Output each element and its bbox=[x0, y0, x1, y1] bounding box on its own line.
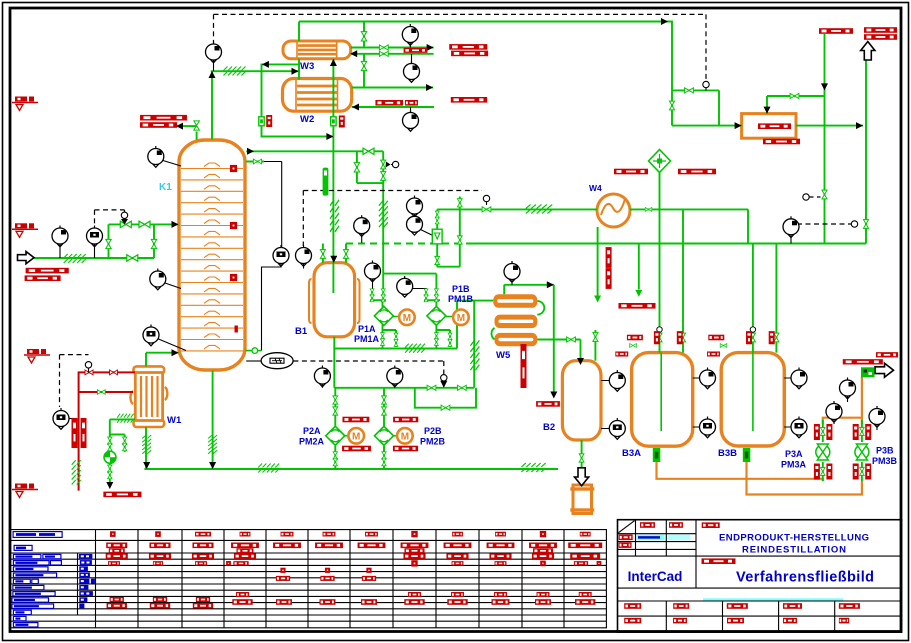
wire P1A suction bbox=[370, 274, 386, 308]
arrow W1 drop bbox=[143, 462, 150, 469]
valve P3A lower bbox=[820, 468, 825, 476]
svg-text:B3B: B3B bbox=[718, 448, 737, 459]
valve nozzle stub bbox=[253, 159, 261, 164]
wire W4 bottom drop bbox=[597, 227, 599, 301]
arrow into box bbox=[735, 122, 742, 129]
link flow indicator bbox=[415, 214, 433, 235]
signal top long bbox=[214, 14, 707, 80]
wire B3B dip tube bbox=[752, 353, 754, 431]
svg-text:Verfahrensfließbild: Verfahrensfließbild bbox=[736, 570, 874, 586]
K1 tray tag squares bbox=[230, 165, 238, 333]
instrument B2 A bbox=[609, 370, 625, 391]
signal flow to P2 valve bbox=[293, 361, 443, 374]
valve P2 main B bbox=[457, 385, 466, 390]
wire P1A drain stub bbox=[383, 330, 397, 347]
table row lines bbox=[10, 540, 607, 621]
valve W3 bypass top bbox=[361, 32, 366, 41]
tag W2 line B bbox=[405, 100, 418, 106]
hatch K1 bottom bbox=[208, 435, 217, 454]
vessel B3A bbox=[632, 353, 693, 447]
valve drop A bbox=[822, 190, 827, 199]
wire reflux into K1 bbox=[176, 126, 197, 140]
signal feed controller bbox=[95, 210, 125, 227]
hatch feed bbox=[64, 254, 86, 263]
flow indicator V-box bbox=[432, 229, 442, 244]
instrument oval flow bbox=[261, 353, 293, 369]
hatch bottoms A bbox=[258, 464, 279, 473]
tag steam B bbox=[81, 418, 87, 448]
link P2 instrument stems bbox=[322, 384, 394, 388]
svg-text:K1: K1 bbox=[159, 182, 172, 193]
valve feed riser A bbox=[106, 239, 111, 248]
valve W1 drain col1 low bbox=[108, 465, 112, 472]
table outer box bbox=[10, 530, 607, 628]
svg-text:B3A: B3A bbox=[622, 448, 641, 459]
wire top right drop A bbox=[824, 34, 826, 244]
vent flag 1 bbox=[12, 97, 38, 111]
valve bus lower loop bbox=[435, 256, 440, 264]
instrument flow A bbox=[407, 196, 423, 217]
wire box outlet bbox=[796, 125, 863, 127]
instrument B3A A bbox=[700, 368, 716, 389]
hatch W5 drop bbox=[470, 340, 479, 370]
row0 bbox=[110, 531, 116, 537]
valve flow drop pair bbox=[435, 211, 439, 218]
tag P3A upper A bbox=[814, 424, 820, 440]
signal right valve B bbox=[797, 223, 852, 225]
sub column line bbox=[78, 553, 96, 615]
link K1 top instrument bbox=[163, 161, 181, 167]
wire W5 drain drop bbox=[473, 301, 475, 388]
svg-text:REINDESTILLATION: REINDESTILLATION bbox=[742, 545, 846, 556]
tag box label bbox=[758, 123, 791, 129]
orange transfer pipes B3A/B3B to pumps P3 bbox=[657, 377, 862, 495]
vessel B3B bbox=[721, 353, 784, 446]
actuator circle manifold bbox=[703, 81, 709, 87]
valve P1B suction pair bbox=[424, 289, 428, 296]
tag B3A valve A bbox=[654, 331, 660, 344]
valve P1B discharge bbox=[434, 333, 438, 340]
valve vent stub pair bbox=[457, 199, 462, 207]
pump P2B bbox=[375, 426, 398, 445]
link B3A instrument stems bbox=[693, 378, 700, 427]
valve B1 stub A bbox=[320, 250, 325, 259]
tag fitting B bbox=[339, 116, 345, 128]
link feed instrument stems bbox=[60, 244, 95, 258]
svg-text:ENDPRODUKT-HERSTELLUNG: ENDPRODUKT-HERSTELLUNG bbox=[719, 533, 869, 544]
valve feed block A bbox=[120, 221, 131, 227]
instrument W1 side bbox=[53, 408, 69, 429]
row2 bbox=[106, 553, 128, 559]
motor PM1B bbox=[453, 310, 469, 326]
tag mixer right bbox=[678, 169, 716, 175]
wire flow indicator drop bbox=[436, 209, 438, 229]
svg-text:B1: B1 bbox=[295, 326, 308, 337]
instrument W1 top bbox=[143, 325, 159, 346]
vent flag 4 bbox=[12, 484, 38, 498]
tag B3A drain bbox=[615, 351, 628, 356]
tag steam A bbox=[72, 418, 78, 448]
top right receiver box bbox=[742, 114, 796, 139]
svg-text:W2: W2 bbox=[300, 114, 314, 125]
hatch bottoms B bbox=[521, 463, 545, 472]
signal right valve A bbox=[809, 196, 821, 198]
svg-text:P3B: P3B bbox=[876, 446, 894, 456]
tag P3A upper B bbox=[826, 424, 832, 440]
valve B3A drain bbox=[630, 344, 637, 348]
instrument P1B bbox=[397, 276, 413, 297]
vessel B1 bbox=[309, 263, 360, 337]
wire P2 discharges bbox=[335, 446, 384, 469]
hatch W5 header bbox=[405, 344, 425, 353]
instrument B1 A bbox=[273, 245, 289, 266]
tag top right A bbox=[819, 28, 853, 34]
arrow W1 drain end bbox=[106, 482, 113, 489]
wire W3 left riser bbox=[298, 22, 300, 80]
svg-text:P2A: P2A bbox=[303, 426, 321, 436]
link mid instrument stem bbox=[361, 234, 363, 243]
wire feed manifold bbox=[34, 224, 179, 258]
link W1 instrument bbox=[159, 339, 187, 351]
tag W2 line A bbox=[375, 100, 403, 106]
instrument B2 B bbox=[609, 418, 625, 439]
pump P2A bbox=[326, 426, 349, 445]
tag W3 right B bbox=[451, 51, 488, 57]
instrument mid bbox=[354, 215, 370, 236]
svg-text:PM1A: PM1A bbox=[354, 334, 380, 344]
tag bus drop bbox=[618, 303, 655, 309]
hatch W4 line bbox=[526, 205, 552, 214]
valve feed bypass bbox=[127, 255, 138, 261]
wire bottoms header bbox=[144, 468, 558, 470]
wire B3B second inlet bbox=[775, 244, 777, 353]
svg-text:PM3A: PM3A bbox=[781, 460, 807, 470]
tag P3B upper A bbox=[853, 424, 859, 440]
wire W3 bypass risers bbox=[363, 22, 365, 88]
valve B3A inlet B bbox=[680, 333, 685, 342]
valve sidedraw bbox=[363, 148, 374, 154]
tag B3B feed bbox=[708, 335, 724, 341]
arrow box top bbox=[764, 107, 771, 114]
instrument P1A bbox=[365, 261, 381, 282]
arrow top header bbox=[661, 18, 668, 25]
wire reflux to condensate drop bbox=[262, 64, 334, 136]
wire W1 bottom outlet bbox=[145, 427, 147, 469]
valve manifold A bbox=[685, 88, 694, 93]
tag P2B bottom bbox=[393, 446, 418, 452]
instrument W3 A bbox=[402, 24, 418, 45]
valve P2B discharge bbox=[382, 452, 386, 459]
instrument P2A bbox=[314, 366, 330, 387]
tag reflux B bbox=[140, 122, 177, 128]
svg-text:P2B: P2B bbox=[424, 426, 442, 436]
valve steam condensate bbox=[97, 390, 105, 394]
table column lines bbox=[96, 530, 565, 628]
wire instrument bus dashed part bbox=[346, 243, 467, 245]
wire bus lower loop bbox=[437, 244, 460, 267]
valve B2 stub bbox=[593, 333, 598, 342]
tag feed A bbox=[26, 268, 69, 274]
hatch W1 drain bbox=[117, 414, 133, 423]
wire W4 feed line bbox=[437, 208, 597, 210]
pump P3B bbox=[855, 444, 869, 460]
tag reflux A bbox=[140, 115, 187, 121]
link top instrument stems bbox=[410, 43, 411, 112]
valve reflux bbox=[194, 121, 199, 130]
instrument B3A B bbox=[700, 417, 716, 438]
instrument feed B bbox=[87, 226, 103, 247]
link bus instrument stem bbox=[790, 235, 792, 243]
actuator circle B3B bbox=[750, 327, 755, 332]
arrow W3 line end bbox=[427, 44, 434, 51]
valve B3B inlet A bbox=[750, 333, 755, 342]
tag product B bbox=[876, 352, 898, 357]
vent flag 3 bbox=[24, 349, 50, 363]
svg-text:P3A: P3A bbox=[785, 449, 803, 459]
arrow into W3 bbox=[350, 50, 357, 57]
arrow reflux K1 bbox=[176, 123, 183, 130]
instrument K1 top bbox=[148, 146, 164, 167]
actuator circle W4 bbox=[483, 195, 489, 201]
valve B2 bottom bbox=[579, 454, 584, 462]
tag P2A bottom bbox=[342, 446, 371, 452]
wire B3A second inlet bbox=[682, 209, 684, 352]
valve B3B inlet B bbox=[774, 333, 779, 342]
link B2 instrument stems bbox=[601, 381, 609, 429]
product outlet block bbox=[861, 367, 875, 377]
svg-text:P1A: P1A bbox=[358, 324, 376, 334]
tag top right C bbox=[864, 34, 897, 40]
actuator circle sidedraw bbox=[392, 161, 398, 167]
svg-text:W3: W3 bbox=[300, 61, 314, 72]
svg-text:W4: W4 bbox=[589, 183, 602, 193]
arrow reflux left bbox=[262, 61, 269, 68]
hatch steam drop bbox=[72, 460, 81, 484]
arrow into B1 bbox=[330, 256, 337, 263]
tag W5 drain bbox=[536, 401, 560, 407]
wire K1 nozzle stub bbox=[246, 161, 264, 163]
wire bus drop connector bbox=[638, 244, 640, 290]
diagonal cell bbox=[619, 521, 635, 533]
link W5 instrument stem bbox=[511, 280, 513, 285]
tag fitting A bbox=[266, 115, 272, 127]
valve P2 bypass bbox=[441, 405, 450, 410]
row1 bbox=[106, 543, 127, 549]
valve P3A upper bbox=[820, 428, 825, 436]
heat exchanger W3 bbox=[283, 41, 351, 59]
link P1B instrument stem bbox=[413, 289, 427, 291]
wire P1 suction header bbox=[383, 273, 436, 275]
valve W3 bypass bottom bbox=[361, 61, 366, 70]
wire P2 bypass loop bbox=[415, 388, 476, 408]
link P1A instrument stem bbox=[372, 279, 374, 289]
valve loop right A bbox=[381, 160, 386, 169]
arrow feed into K1 bbox=[172, 221, 179, 228]
arrow W5 top bbox=[547, 281, 554, 288]
wire B3A dip tube bbox=[660, 353, 662, 431]
tag feed B bbox=[25, 275, 61, 281]
wire W5 outlet to B2 bbox=[537, 340, 580, 361]
motor PM2B bbox=[397, 428, 413, 444]
rows4-5 c6,c7,c8 bbox=[280, 568, 285, 573]
wire instrument bus solid part bbox=[467, 243, 866, 245]
mixer diamond bbox=[649, 150, 671, 173]
actuator circle right B bbox=[851, 221, 857, 227]
wire B2 bottom outlet bbox=[581, 440, 583, 468]
wire W1 side drain bbox=[110, 419, 135, 484]
svg-text:W1: W1 bbox=[167, 415, 182, 426]
sight glass bar bbox=[323, 168, 329, 196]
hatch condensate drop bbox=[330, 200, 339, 232]
arrow W1 to K1 bbox=[172, 349, 179, 356]
tag P2B top bbox=[393, 417, 418, 423]
tag B3B valve A bbox=[746, 331, 752, 344]
wire condensate main to B1 bbox=[332, 59, 334, 293]
heat exchanger W2 bbox=[283, 79, 352, 112]
pump P1A bbox=[374, 306, 399, 325]
link K1 mid instrument bbox=[165, 283, 181, 289]
instrument feed A bbox=[52, 226, 68, 247]
arrow into W2 bbox=[352, 104, 359, 111]
vessel B2 bbox=[562, 361, 601, 440]
wire W4 right line bbox=[630, 209, 748, 243]
valve P3B lower bbox=[860, 468, 865, 476]
tag W2 right bbox=[451, 97, 487, 103]
valve W4 line bbox=[645, 207, 652, 211]
valve drop B bbox=[863, 220, 868, 229]
valve steam A bbox=[85, 370, 93, 375]
heat exchanger W5 coil bbox=[491, 294, 544, 346]
tag W3 right A bbox=[449, 44, 487, 50]
column K1 bbox=[179, 140, 245, 370]
instrument bus bbox=[783, 216, 799, 237]
valve B3B drain bbox=[720, 344, 727, 348]
wire B2 top stub bbox=[594, 330, 596, 361]
valve W3 outlet A bbox=[379, 45, 388, 50]
arrow condensate right bbox=[326, 133, 333, 140]
heat exchanger W4 bbox=[597, 194, 630, 227]
valve box top bbox=[790, 93, 799, 98]
pump P1B bbox=[427, 306, 452, 325]
pump P3A bbox=[816, 444, 830, 460]
valve manifold riser bbox=[669, 101, 674, 110]
link B1 instrument stems bbox=[262, 264, 304, 351]
tag P3B lower B bbox=[865, 464, 871, 480]
tag P3B lower A bbox=[853, 464, 859, 480]
actuator circle feed bbox=[121, 212, 127, 218]
instrument W5 bbox=[504, 261, 520, 282]
wire B3B first inlet bbox=[752, 244, 754, 353]
arrow box out bbox=[856, 122, 863, 129]
wire top right valve manifold bbox=[672, 90, 742, 125]
wire K1 overhead vapor bbox=[211, 71, 299, 139]
wire steam supply bbox=[78, 371, 135, 373]
tag W1 drain bbox=[103, 492, 141, 498]
instrument P3 A bbox=[840, 378, 856, 399]
wire W5 vapor out bbox=[504, 285, 554, 396]
wire P1 discharges bbox=[383, 324, 437, 349]
left cols rows 9-10 bbox=[110, 597, 124, 602]
hollow arrow to drum bbox=[575, 468, 589, 486]
valve feed riser B bbox=[151, 239, 156, 248]
valve P1A suction pair bbox=[370, 289, 374, 296]
tag W4 drop A bbox=[606, 247, 612, 268]
link K1 nozzle signal bbox=[264, 162, 282, 248]
tag W5 vertical bbox=[521, 344, 527, 388]
svg-text:PM1B: PM1B bbox=[448, 294, 474, 304]
valve loop left bbox=[354, 163, 359, 172]
wire sidedraw bypass loop bbox=[357, 151, 383, 273]
valve P2A suction bbox=[333, 396, 338, 404]
tag P3B upper B bbox=[865, 424, 871, 440]
wire P2 suction main bbox=[334, 387, 474, 389]
valve W4 actuated bbox=[482, 207, 491, 212]
valve B3A inlet A bbox=[657, 333, 662, 342]
tag B3B valve B bbox=[769, 331, 775, 344]
wire K1 bottom outlet bbox=[212, 371, 214, 470]
wire P2A suction bbox=[334, 388, 336, 426]
row9 bbox=[232, 599, 252, 605]
instrument K1 mid bbox=[150, 269, 166, 290]
tag W4 drop B bbox=[606, 268, 612, 289]
instrument B3B B bbox=[791, 417, 807, 438]
motor PM1A bbox=[399, 310, 415, 326]
wire box top feed bbox=[767, 96, 825, 114]
inline fitting W2 drop bbox=[331, 117, 336, 126]
hollow arrow feed bbox=[18, 252, 35, 264]
heat exchanger W1 bbox=[130, 366, 167, 427]
wire condensate return bbox=[79, 391, 133, 393]
tag W3 line bbox=[404, 48, 428, 53]
vent flag 2 bbox=[12, 223, 38, 237]
row3 bbox=[108, 561, 120, 565]
inline fitting condensate bbox=[259, 117, 264, 126]
arrow flow valve bbox=[440, 381, 447, 388]
valve W1 drain col1 bbox=[108, 437, 112, 444]
cyan bars bbox=[637, 535, 665, 541]
arrow W2 out bbox=[426, 84, 433, 91]
signal B1 level to valve bbox=[303, 191, 482, 247]
valve W3 outlet B bbox=[379, 51, 388, 56]
arrow K1 drop bbox=[209, 462, 216, 469]
arrow signal feed bbox=[121, 219, 128, 225]
wire P2B suction bbox=[383, 388, 385, 426]
wire B1 bottoms and W5 feed header bbox=[334, 301, 493, 388]
row8 bbox=[236, 592, 249, 597]
instrument flow B bbox=[407, 214, 423, 235]
arrow manifold drop bbox=[821, 83, 828, 90]
actuator circle B3A bbox=[657, 327, 662, 332]
tag B3A feed bbox=[627, 335, 643, 341]
valve W1 drain col2 bbox=[123, 437, 127, 444]
actuator circle W1 bbox=[85, 362, 91, 368]
bottom drum under B2 bbox=[570, 485, 594, 514]
instrument B1 B bbox=[296, 245, 312, 266]
wire vent stub bbox=[459, 197, 461, 244]
arrow W3 up bbox=[330, 59, 337, 66]
steam trap circle bbox=[104, 451, 116, 463]
tag P2A top bbox=[342, 417, 369, 423]
svg-text:B2: B2 bbox=[543, 422, 555, 433]
valve P3B upper bbox=[860, 428, 865, 436]
signal W1 controller bbox=[60, 355, 89, 407]
valve feed block B bbox=[139, 221, 150, 227]
tag B3A valve B bbox=[677, 331, 683, 344]
wire P3A suction/discharge stubs bbox=[822, 420, 824, 481]
level nozzle fitting bbox=[246, 348, 262, 354]
link oval instrument bbox=[246, 360, 261, 362]
hollow arrow vent top right bbox=[861, 42, 875, 61]
